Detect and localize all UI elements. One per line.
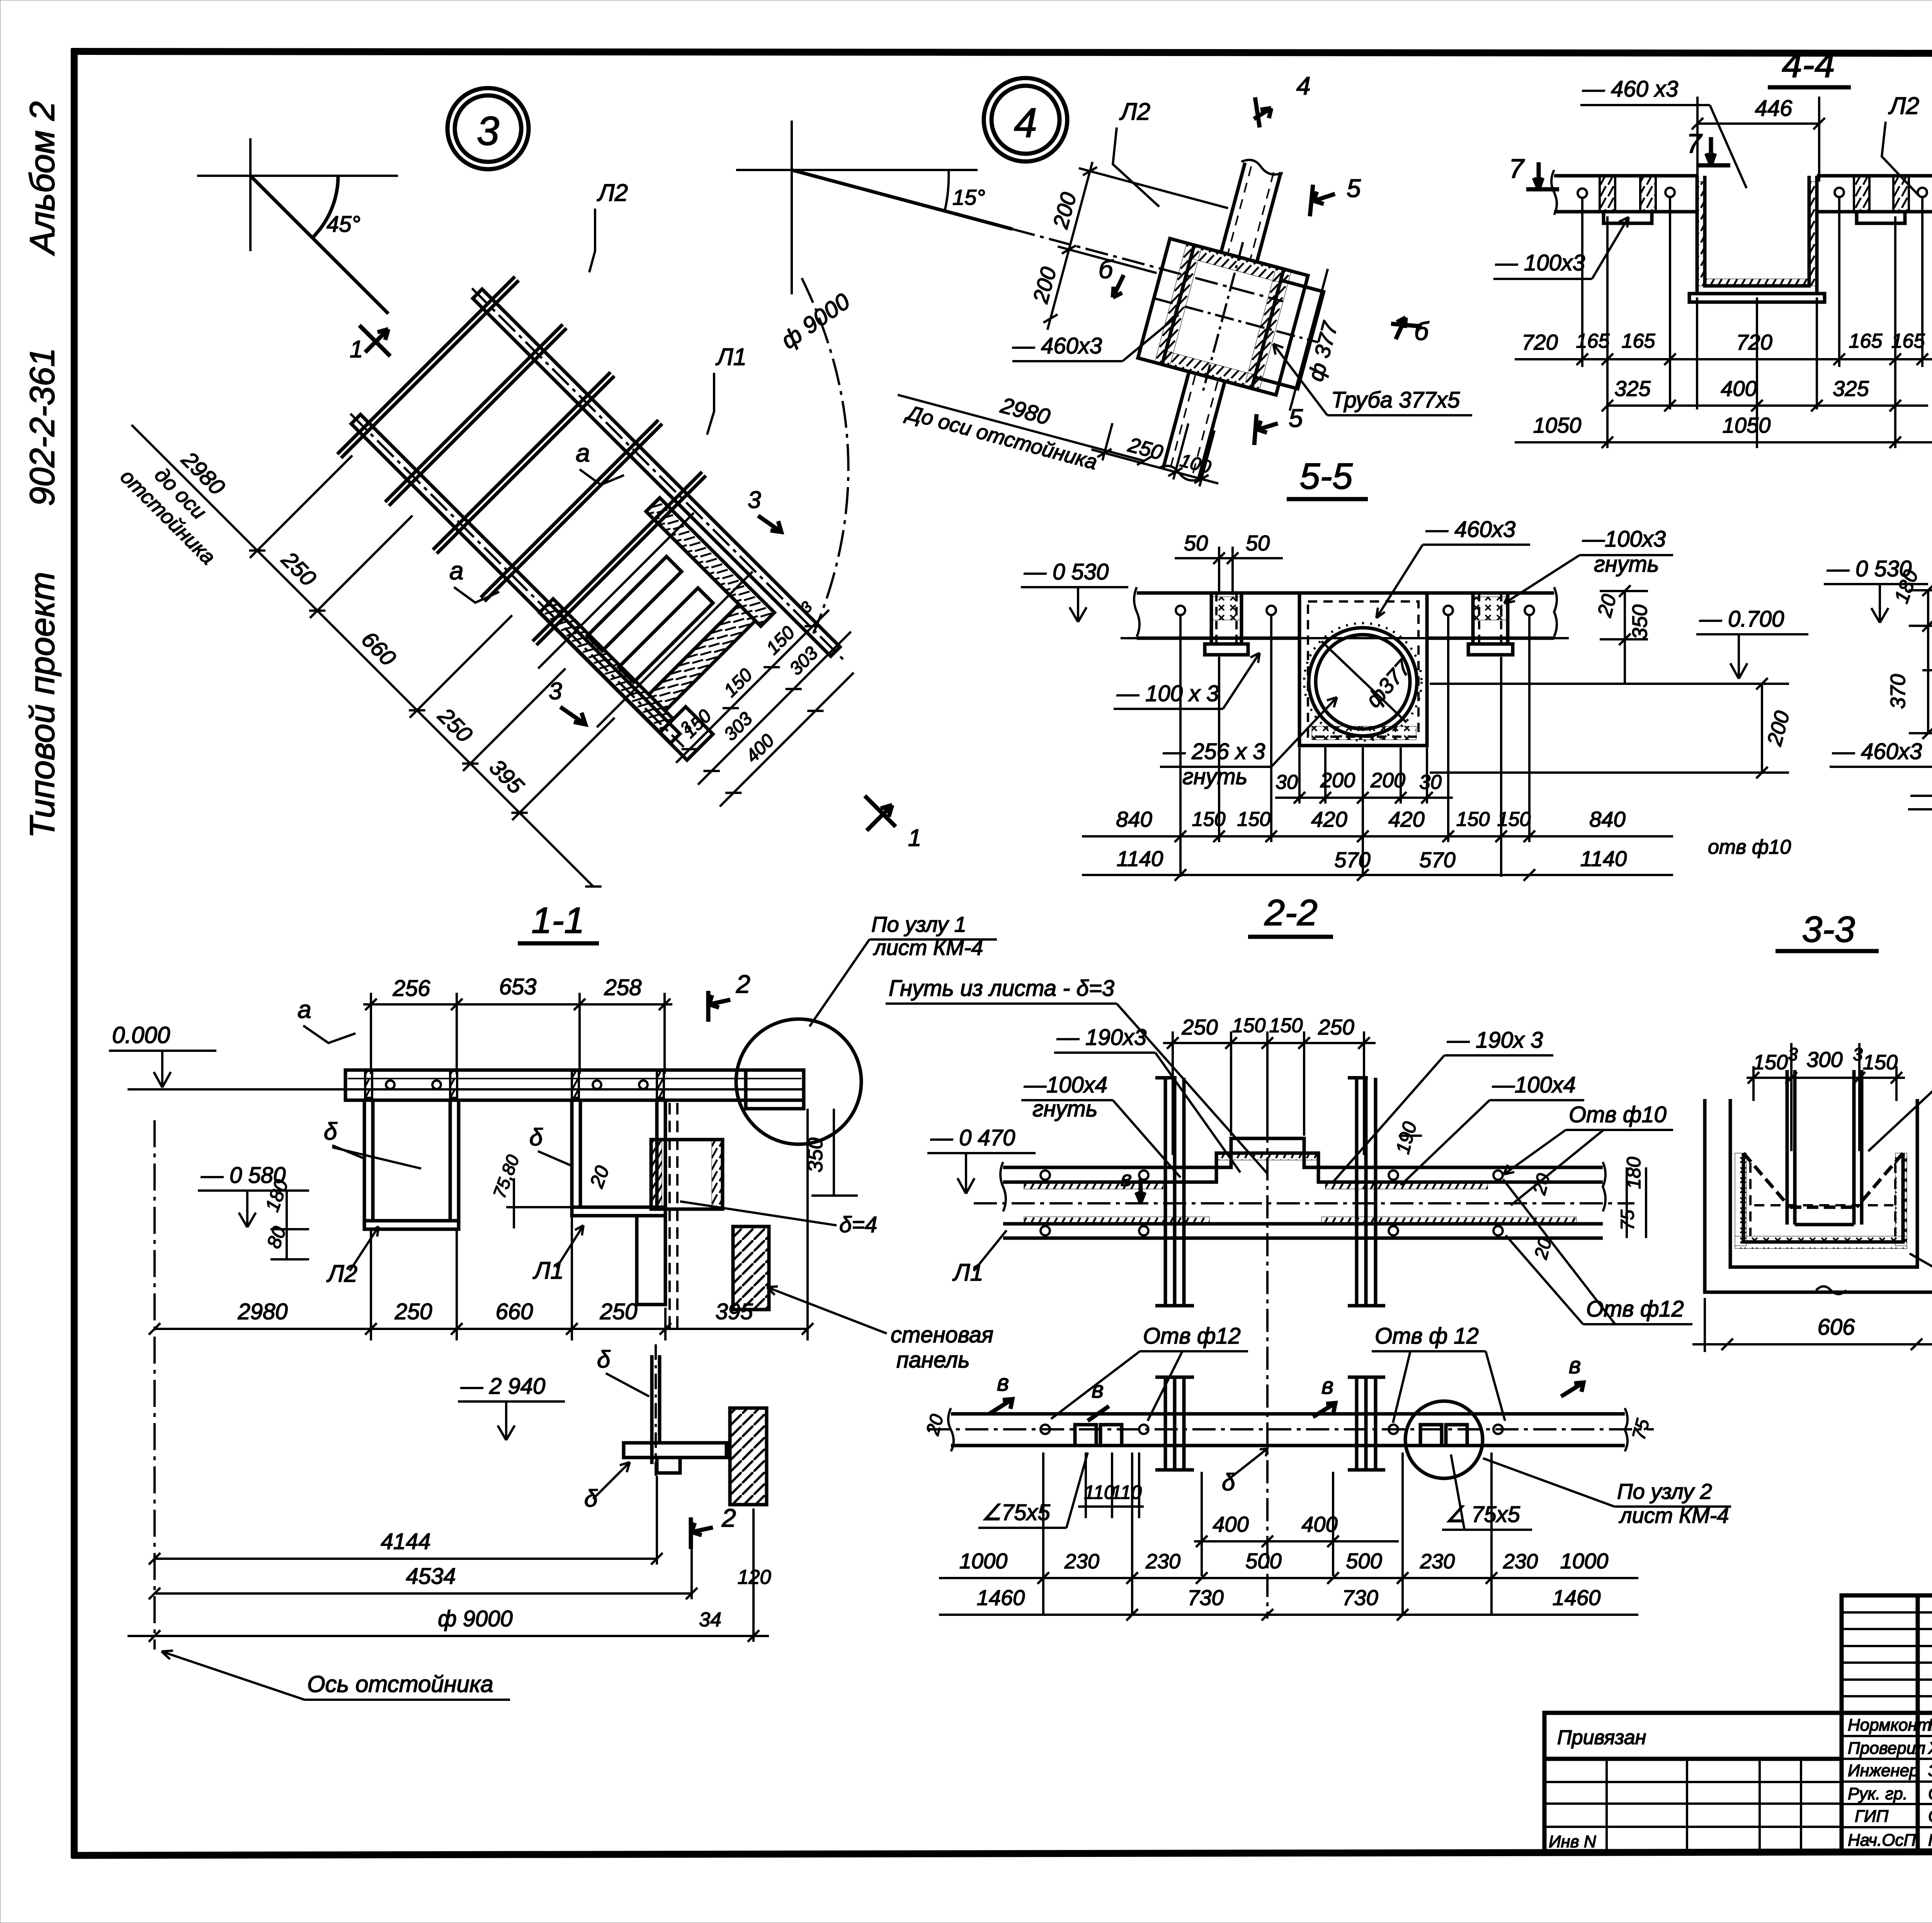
- svg-text:250: 250: [1318, 1015, 1354, 1039]
- 350 and -0470: [804, 1109, 1036, 1196]
- binding table left: [1544, 1713, 1842, 1851]
- right rotated dims: [1392, 1119, 1646, 1262]
- svg-text:Альбом 2: Альбом 2: [23, 101, 62, 256]
- rotated dims left: [1886, 567, 1932, 739]
- svg-text:Смоляков: Смоляков: [1928, 1784, 1932, 1803]
- svg-text:в: в: [1121, 1166, 1132, 1191]
- node plates cluster near SE end: [511, 486, 814, 789]
- hanging channel 2: [572, 1100, 665, 1305]
- main band: [1121, 587, 1569, 638]
- rotated dims 180 80: [261, 1177, 309, 1259]
- dimension chain lower-left side: [95, 330, 692, 927]
- svg-text:420: 420: [1388, 807, 1424, 831]
- svg-text:— 100x3: — 100x3: [1495, 250, 1585, 275]
- svg-text:3: 3: [1788, 1044, 1798, 1064]
- top dim row 250 150 150 250: [1163, 1014, 1376, 1155]
- svg-text:3: 3: [549, 678, 562, 705]
- svg-text:— 0.700: — 0.700: [1699, 606, 1784, 632]
- 15 deg line: [792, 170, 1012, 229]
- stiffeners lower: [1155, 1377, 1385, 1470]
- svg-text:— 0 530: — 0 530: [1024, 559, 1109, 584]
- right end plate + wall: [726, 1070, 804, 1310]
- svg-text:250: 250: [395, 1299, 432, 1324]
- svg-text:δ: δ: [529, 1124, 543, 1151]
- rungs: [337, 277, 710, 649]
- svg-text:500: 500: [1245, 1549, 1281, 1573]
- labels around ladder: [449, 180, 855, 724]
- svg-text:2980: 2980: [237, 1299, 287, 1324]
- clip angles: [1075, 1425, 1467, 1446]
- node mark circle 4: [984, 78, 1067, 161]
- structure: [1922, 576, 1932, 753]
- svg-text:— 2 940: — 2 940: [460, 1374, 545, 1399]
- labels: [1012, 99, 1472, 415]
- svg-text:в: в: [1569, 1352, 1581, 1378]
- dim row 3: [1515, 413, 1932, 448]
- svg-text:1140: 1140: [1117, 846, 1163, 871]
- svg-text:400: 400: [1721, 376, 1757, 401]
- svg-text:Инв N: Инв N: [1549, 1832, 1596, 1851]
- svg-text:4-4: 4-4: [1782, 44, 1835, 85]
- svg-text:ф 9000: ф 9000: [438, 1606, 513, 1631]
- svg-text:50: 50: [1184, 531, 1208, 555]
- svg-text:446: 446: [1755, 96, 1793, 121]
- svg-text:1000: 1000: [959, 1549, 1008, 1573]
- svg-text:2: 2: [736, 970, 750, 998]
- svg-text:1-1: 1-1: [531, 900, 584, 941]
- dim row 1140 570 570 1140: [1082, 846, 1673, 881]
- svg-text:1050: 1050: [1533, 413, 1582, 437]
- outer: [1705, 1099, 1932, 1292]
- svg-text:165: 165: [1576, 330, 1610, 352]
- svg-text:200: 200: [1370, 769, 1405, 792]
- main plate band: [1551, 170, 1932, 215]
- lower pipe: [1158, 371, 1226, 483]
- svg-text:— 190x 3: — 190x 3: [1447, 1028, 1543, 1053]
- pipe assembly rotated: pipe direction -75deg: [993, 114, 1378, 511]
- 400 400 dims: [1194, 1472, 1399, 1576]
- svg-text:4: 4: [1296, 71, 1311, 100]
- svg-text:7: 7: [1509, 153, 1525, 183]
- svg-text:б: б: [1099, 255, 1114, 284]
- bolt groups on beam: [365, 1071, 664, 1098]
- svg-text:∠75x5: ∠75x5: [981, 1500, 1051, 1525]
- svg-text:660: 660: [496, 1299, 533, 1324]
- svg-text:150: 150: [1232, 1014, 1266, 1037]
- svg-text:1460: 1460: [977, 1585, 1025, 1610]
- svg-text:Нормконт.: Нормконт.: [1848, 1716, 1932, 1734]
- svg-text:Ханин: Ханин: [1928, 1739, 1932, 1758]
- svg-text:—100x4: —100x4: [1492, 1072, 1576, 1097]
- svg-text:150: 150: [1269, 1014, 1303, 1037]
- svg-text:Зайцев: Зайцев: [1928, 1761, 1932, 1780]
- flange plates: [1134, 224, 1338, 417]
- dim row 840 150 ...: [1082, 807, 1791, 858]
- svg-text:110: 110: [1111, 1481, 1142, 1503]
- svg-text:50: 50: [1246, 531, 1270, 555]
- svg-text:7: 7: [1687, 128, 1703, 158]
- U channel: [1689, 176, 1825, 302]
- main beam: [345, 1070, 804, 1100]
- svg-text:500: 500: [1346, 1549, 1382, 1573]
- top dims 256 653 258: [363, 974, 672, 1074]
- svg-text:Типовой проект: Типовой проект: [23, 572, 62, 838]
- left bolt cluster: [1578, 176, 1675, 223]
- svg-text:370: 370: [1886, 674, 1910, 709]
- extension lines to dim rows: [1582, 197, 1922, 448]
- svg-text:150: 150: [1456, 808, 1490, 831]
- svg-text:150: 150: [1192, 808, 1226, 831]
- svg-text:отв ф10: отв ф10: [1708, 836, 1791, 858]
- embed plate right of channel 2: [651, 1103, 723, 1329]
- svg-text:250: 250: [1181, 1015, 1218, 1039]
- U trough: [1705, 1070, 1932, 1294]
- svg-text:230: 230: [1503, 1550, 1538, 1573]
- svg-text:325: 325: [1833, 376, 1869, 401]
- section 2 marker top: [708, 970, 750, 1022]
- svg-text:250: 250: [600, 1299, 638, 1324]
- axis crosshair: [197, 175, 398, 177]
- svg-text:Л1: Л1: [715, 344, 747, 370]
- svg-text:в: в: [1321, 1373, 1333, 1399]
- svg-text:1000: 1000: [1560, 1549, 1609, 1573]
- section 7 markers: [1509, 128, 1730, 189]
- svg-text:— 460x3: — 460x3: [1425, 517, 1515, 542]
- svg-text:a: a: [449, 556, 464, 585]
- svg-text:30: 30: [1419, 771, 1442, 793]
- bottom dim rows: [128, 1476, 771, 1642]
- svg-text:258: 258: [604, 975, 642, 1000]
- svg-text:б: б: [1414, 317, 1430, 345]
- svg-text:325: 325: [1614, 376, 1651, 401]
- svg-text:400: 400: [1301, 1512, 1337, 1536]
- в section labels: [989, 1352, 1583, 1421]
- svg-text:4144: 4144: [381, 1529, 430, 1554]
- axis crosshair: [791, 121, 793, 294]
- right rotated dims: [1430, 585, 1794, 778]
- upper pipe: [1217, 158, 1284, 262]
- svg-text:Посева: Посева: [1928, 1831, 1932, 1850]
- svg-text:0.000: 0.000: [112, 1022, 170, 1048]
- svg-text:1: 1: [908, 825, 921, 851]
- lower bracket: [624, 1344, 726, 1476]
- svg-text:— 256 x 3: — 256 x 3: [1163, 739, 1265, 764]
- center axes: [974, 1202, 1634, 1204]
- svg-text:110: 110: [1084, 1481, 1115, 1503]
- svg-text:Нач.ОсП: Нач.ОсП: [1848, 1831, 1916, 1850]
- svg-text:1050: 1050: [1723, 413, 1771, 437]
- svg-text:Гнуть из листа - δ=3: Гнуть из листа - δ=3: [889, 976, 1114, 1001]
- svg-text:Л2: Л2: [597, 180, 628, 206]
- svg-text:— 100 x 3: — 100 x 3: [1116, 681, 1219, 706]
- svg-text:45°: 45°: [327, 212, 361, 237]
- svg-text:256: 256: [393, 976, 431, 1001]
- svg-text:720: 720: [1736, 330, 1772, 354]
- svg-text:840: 840: [1589, 807, 1625, 831]
- svg-text:1140: 1140: [1580, 846, 1627, 871]
- bolts upper band: [1041, 1170, 1503, 1235]
- svg-text:200: 200: [1320, 769, 1355, 792]
- bolt circles: [1176, 606, 1185, 615]
- svg-text:730: 730: [1187, 1585, 1223, 1610]
- svg-text:165: 165: [1891, 330, 1925, 352]
- svg-text:— 0 470: — 0 470: [930, 1125, 1015, 1150]
- svg-text:2: 2: [721, 1503, 736, 1532]
- right channel: [1468, 593, 1513, 655]
- svg-text:Л2: Л2: [1888, 93, 1919, 119]
- 2980 dim along 15deg: [891, 366, 1157, 488]
- svg-text:1460: 1460: [1553, 1585, 1601, 1610]
- svg-text:— 460x3: — 460x3: [1012, 333, 1102, 358]
- svg-text:ГИП: ГИП: [1855, 1807, 1888, 1826]
- svg-text:δ=4: δ=4: [839, 1212, 877, 1237]
- svg-text:Отв ф12: Отв ф12: [1586, 1296, 1684, 1322]
- svg-text:Проверил: Проверил: [1848, 1739, 1925, 1758]
- 110 110 dims: [1078, 1452, 1144, 1518]
- 606 dim: [1692, 1298, 1932, 1352]
- svg-text:570: 570: [1334, 848, 1370, 872]
- svg-text:350: 350: [1628, 605, 1651, 639]
- svg-text:Л2: Л2: [1119, 99, 1150, 125]
- rail L2 (upper): [467, 284, 848, 664]
- svg-text:2-2: 2-2: [1264, 892, 1317, 933]
- svg-text:δ: δ: [597, 1346, 611, 1373]
- 45 deg arc: [312, 176, 338, 238]
- upper revision table: [1842, 1595, 1932, 1713]
- svg-text:По узлу 1: По узлу 1: [871, 912, 966, 936]
- svg-text:Киселев: Киселев: [1928, 1716, 1932, 1734]
- svg-text:3-3: 3-3: [1802, 909, 1855, 950]
- section marker в on band: [1121, 1166, 1145, 1202]
- svg-text:4534: 4534: [406, 1564, 456, 1589]
- 75 80 dims near channel2: [489, 1152, 614, 1228]
- svg-text:1: 1: [350, 336, 363, 363]
- svg-text:По узлу 2: По узлу 2: [1617, 1479, 1712, 1503]
- svg-text:5-5: 5-5: [1299, 456, 1353, 497]
- svg-text:165: 165: [1622, 330, 1656, 352]
- svg-text:— 460 x3: — 460 x3: [1582, 76, 1678, 102]
- dim row 1: [1515, 330, 1932, 381]
- svg-text:стеновая: стеновая: [891, 1322, 993, 1347]
- bottom dims 250 100: [1089, 401, 1231, 491]
- node circle and callout: [736, 1019, 861, 1144]
- stiffener pairs upper: [1155, 1078, 1385, 1306]
- svg-text:панель: панель: [896, 1347, 970, 1373]
- svg-text:Отв ф 12: Отв ф 12: [1375, 1323, 1479, 1349]
- svg-text:395: 395: [716, 1299, 753, 1324]
- weld ticks along channel: [1697, 182, 1705, 286]
- top dims 150 3 300 3 150: [1747, 1043, 1905, 1151]
- svg-text:30: 30: [1276, 771, 1298, 793]
- svg-text:—100x3: —100x3: [1582, 527, 1666, 552]
- svg-text:34: 34: [699, 1609, 721, 1631]
- svg-text:5: 5: [1347, 174, 1361, 202]
- signature table: [1842, 1713, 1932, 1851]
- phi 377 dim right: [1290, 269, 1355, 418]
- dim row 1460 730 730 1460: [939, 1585, 1638, 1621]
- right bolt cluster: [1835, 176, 1927, 223]
- svg-text:Труба 377x5: Труба 377x5: [1331, 387, 1460, 413]
- svg-text:Инженер: Инженер: [1848, 1761, 1919, 1780]
- svg-text:Отв ф10: Отв ф10: [1569, 1102, 1667, 1127]
- dim row 2: [1602, 376, 1928, 411]
- svg-text:3: 3: [477, 109, 499, 154]
- svg-text:δ: δ: [584, 1485, 598, 1512]
- svg-text:Ось отстойника: Ось отстойника: [307, 1671, 493, 1697]
- svg-text:653: 653: [499, 974, 537, 999]
- node mark circle 3: [447, 88, 529, 169]
- svg-text:∠ 75x5: ∠ 75x5: [1445, 1502, 1520, 1527]
- svg-text:3: 3: [1853, 1044, 1863, 1064]
- svg-text:Седых: Седых: [1928, 1807, 1932, 1826]
- svg-text:—256x3: —256x3: [1910, 781, 1932, 807]
- svg-text:75: 75: [1617, 1210, 1638, 1230]
- rail L1 (lower): [346, 409, 689, 752]
- svg-text:300: 300: [1806, 1047, 1842, 1072]
- svg-text:a: a: [298, 995, 311, 1023]
- svg-text:230: 230: [1420, 1550, 1455, 1573]
- dim row 2980 250 660 250 395: [149, 1109, 813, 1649]
- svg-text:Рук. гр.: Рук. гр.: [1848, 1784, 1908, 1803]
- lower band: [927, 1408, 1654, 1451]
- left margin stamp text: [23, 101, 62, 838]
- svg-text:150: 150: [1753, 1051, 1788, 1074]
- upper band: [1000, 1138, 1605, 1238]
- svg-text:150: 150: [1497, 808, 1531, 831]
- svg-text:606: 606: [1818, 1315, 1855, 1340]
- 45 deg axis line: [250, 176, 388, 314]
- svg-text:230: 230: [1145, 1550, 1180, 1573]
- dim row 30 200 200 30: [1275, 769, 1453, 804]
- svg-text:a: a: [576, 438, 590, 467]
- svg-text:180: 180: [1623, 1157, 1645, 1189]
- svg-text:3: 3: [748, 487, 761, 513]
- section 2 marker bottom: [691, 1503, 736, 1549]
- svg-text:Привязан: Привязан: [1557, 1726, 1646, 1749]
- svg-text:165: 165: [1849, 330, 1883, 352]
- svg-text:—100x4: —100x4: [1024, 1072, 1107, 1097]
- svg-text:4: 4: [1014, 99, 1037, 146]
- small dims near SE end: [658, 591, 877, 810]
- hanging channel 1: [364, 1100, 459, 1229]
- svg-text:570: 570: [1419, 848, 1455, 872]
- svg-text:840: 840: [1116, 807, 1152, 831]
- bolts lower band: [1041, 1425, 1503, 1434]
- svg-text:Л1: Л1: [532, 1257, 564, 1284]
- left channel: [1205, 593, 1248, 655]
- svg-text:δ: δ: [1222, 1469, 1235, 1496]
- svg-text:150: 150: [1863, 1051, 1898, 1074]
- svg-text:150: 150: [1237, 808, 1271, 831]
- svg-text:в: в: [997, 1370, 1009, 1396]
- central box with pipe hole: [1299, 593, 1427, 746]
- section arrow 1 top: [350, 325, 390, 363]
- svg-text:730: 730: [1342, 1585, 1378, 1610]
- svg-text:902-2-361: 902-2-361: [23, 348, 62, 506]
- phi 9000 arc and label: [802, 278, 849, 634]
- svg-text:5: 5: [1289, 404, 1303, 432]
- svg-text:230: 230: [1064, 1550, 1099, 1573]
- svg-text:420: 420: [1311, 807, 1347, 831]
- extension lines down: [1180, 616, 1529, 877]
- centerline: [1922, 669, 1932, 671]
- svg-text:δ: δ: [324, 1118, 337, 1145]
- svg-text:720: 720: [1522, 330, 1558, 354]
- svg-text:Отв ф12: Отв ф12: [1143, 1323, 1241, 1349]
- svg-text:15°: 15°: [952, 185, 985, 209]
- section markers: [1099, 71, 1430, 445]
- 50 50 top dims: [1175, 531, 1283, 595]
- svg-text:400: 400: [1213, 1512, 1248, 1536]
- dims 200 200 left: [1022, 155, 1231, 367]
- svg-text:в: в: [1092, 1377, 1104, 1403]
- inner liner: [1743, 1153, 1903, 1242]
- dash-dot axis to pipe: [1012, 229, 1283, 301]
- section arrow 1 bottom: [865, 796, 921, 851]
- dim row 1000 230 ...: [939, 1452, 1638, 1615]
- svg-text:— 460x3: — 460x3: [1832, 739, 1922, 764]
- svg-text:120: 120: [738, 1566, 771, 1588]
- svg-text:— 190x3: — 190x3: [1056, 1025, 1146, 1050]
- ladder assembly rotated 45: [95, 159, 886, 950]
